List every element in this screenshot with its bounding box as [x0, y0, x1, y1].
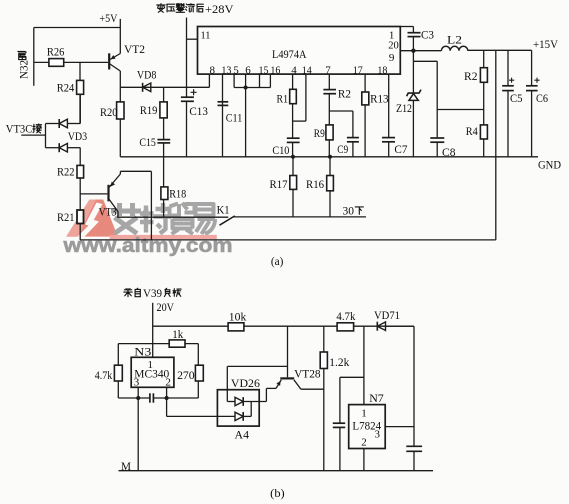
svg-text:C9: C9: [337, 142, 348, 156]
svg-text:K1: K1: [217, 203, 230, 217]
svg-text:R16: R16: [306, 177, 324, 191]
svg-text:+28V: +28V: [205, 2, 234, 16]
svg-text:R2: R2: [338, 86, 351, 100]
svg-text:R17: R17: [270, 177, 288, 191]
svg-text:A4: A4: [235, 428, 250, 442]
svg-text:R1: R1: [277, 91, 289, 105]
svg-text:15: 15: [259, 64, 269, 76]
svg-text:L4974A: L4974A: [272, 47, 307, 61]
svg-text:1.2k: 1.2k: [329, 355, 349, 369]
svg-text:3: 3: [375, 429, 381, 441]
svg-text:M: M: [121, 459, 131, 473]
svg-text:V39: V39: [143, 288, 162, 300]
svg-text:VT28: VT28: [294, 367, 321, 381]
svg-text:C7: C7: [394, 142, 407, 156]
svg-text:30: 30: [343, 203, 355, 217]
svg-text:13: 13: [221, 64, 231, 76]
svg-text:1k: 1k: [172, 327, 183, 341]
svg-text:VT3C: VT3C: [6, 121, 33, 135]
svg-text:R22: R22: [57, 164, 75, 178]
svg-text:1: 1: [361, 407, 367, 419]
svg-text:270: 270: [177, 368, 195, 382]
svg-text:R13: R13: [370, 91, 389, 105]
svg-text:8: 8: [210, 64, 216, 76]
svg-text:4.7k: 4.7k: [95, 368, 113, 382]
svg-text:VD71: VD71: [374, 308, 400, 322]
svg-text:R21: R21: [57, 210, 75, 224]
svg-text:4: 4: [291, 64, 297, 76]
svg-text:R9: R9: [314, 126, 325, 140]
svg-text:R18: R18: [169, 187, 186, 201]
svg-text:GND: GND: [538, 157, 561, 171]
svg-text:www.aitmy.com: www.aitmy.com: [62, 234, 232, 257]
svg-text:2: 2: [361, 437, 367, 449]
svg-text:7: 7: [325, 64, 331, 76]
svg-text:16: 16: [270, 64, 280, 76]
svg-text:20: 20: [388, 40, 399, 52]
svg-text:VT2: VT2: [124, 42, 145, 56]
svg-text:VD26: VD26: [231, 376, 260, 390]
svg-text:N32: N32: [17, 60, 31, 79]
svg-text:5: 5: [233, 64, 239, 76]
svg-text:R19: R19: [140, 103, 158, 117]
svg-text:R26: R26: [47, 44, 65, 58]
svg-text:17: 17: [353, 64, 363, 76]
svg-text:14: 14: [302, 64, 312, 76]
svg-text:R4: R4: [466, 124, 478, 138]
svg-text:R24: R24: [57, 81, 75, 95]
svg-text:C3: C3: [421, 27, 434, 41]
svg-text:MC340: MC340: [134, 366, 169, 380]
svg-text:18: 18: [377, 64, 387, 76]
svg-text:R20: R20: [100, 105, 118, 119]
svg-text:2: 2: [165, 377, 171, 389]
svg-text:(a): (a): [271, 254, 284, 268]
svg-text:10k: 10k: [229, 310, 247, 324]
svg-text:C8: C8: [442, 145, 456, 159]
svg-text:11: 11: [201, 30, 211, 42]
svg-text:C11: C11: [226, 110, 243, 124]
svg-text:L2: L2: [447, 32, 462, 46]
svg-text:C5: C5: [510, 91, 523, 105]
svg-text:C10: C10: [272, 143, 289, 157]
svg-text:VD8: VD8: [137, 67, 157, 81]
svg-text:Z12: Z12: [396, 101, 412, 115]
svg-text:3: 3: [134, 377, 140, 389]
svg-text:R2: R2: [464, 69, 478, 83]
svg-text:20V: 20V: [157, 300, 175, 314]
svg-text:C6: C6: [536, 91, 548, 105]
svg-text:(b): (b): [270, 486, 285, 500]
svg-text:C13: C13: [189, 104, 208, 118]
svg-text:VT3: VT3: [99, 205, 117, 219]
svg-text:4.7k: 4.7k: [336, 309, 355, 323]
svg-text:N7: N7: [369, 391, 384, 405]
svg-text:6: 6: [245, 64, 251, 76]
svg-text:N3: N3: [134, 344, 151, 358]
svg-text:9: 9: [389, 52, 395, 64]
svg-text:C15: C15: [139, 135, 156, 149]
svg-text:+5V: +5V: [99, 11, 117, 25]
svg-text:VD3: VD3: [68, 129, 88, 143]
svg-text:+15V: +15V: [533, 37, 558, 51]
